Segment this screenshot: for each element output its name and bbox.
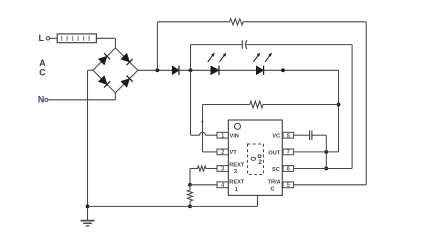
svg-text:TRIA: TRIA	[268, 180, 281, 186]
svg-text:C: C	[39, 67, 46, 77]
svg-text:REXT: REXT	[229, 180, 245, 186]
svg-text:SC: SC	[272, 167, 280, 173]
svg-text:VC: VC	[272, 134, 280, 140]
svg-text:2: 2	[234, 169, 237, 175]
svg-text:VT: VT	[230, 150, 238, 156]
svg-text:A: A	[39, 58, 46, 68]
svg-text:L: L	[38, 33, 44, 43]
svg-text:VIN: VIN	[230, 133, 239, 139]
svg-text:C: C	[270, 186, 274, 192]
svg-text:2: 2	[258, 159, 262, 166]
svg-text:1: 1	[235, 187, 238, 193]
svg-text:N: N	[38, 95, 44, 105]
svg-text:OUT: OUT	[268, 150, 280, 156]
svg-text:REXT: REXT	[229, 162, 245, 168]
